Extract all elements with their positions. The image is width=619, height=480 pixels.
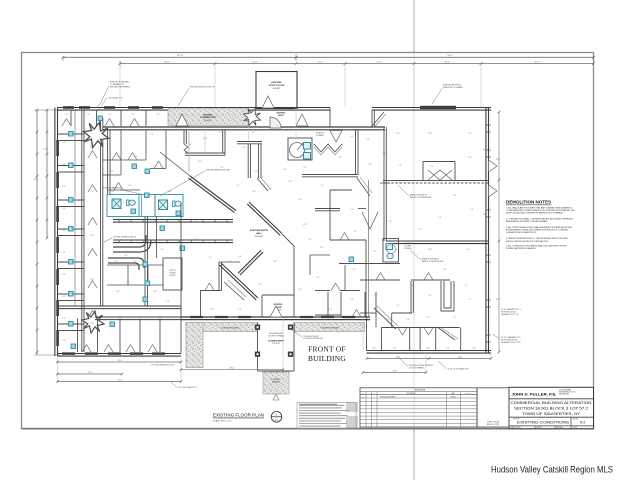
svg-text:9'-6": 9'-6" <box>62 230 66 232</box>
svg-text:5'-6": 5'-6" <box>134 156 138 158</box>
svg-text:6'-6": 6'-6" <box>470 209 474 211</box>
svg-text:1 SOUTH STREET: 1 SOUTH STREET <box>559 390 571 392</box>
svg-text:9'-0": 9'-0" <box>428 295 432 297</box>
svg-text:UTILITY ROOM: UTILITY ROOM <box>269 85 285 87</box>
main inner wall y126 <box>103 127 385 130</box>
svg-text:4'-6": 4'-6" <box>406 319 410 321</box>
h-wall y263 <box>339 263 400 265</box>
diag door at NW of big room <box>372 112 384 126</box>
svg-text:1 OF 6: 1 OF 6 <box>573 427 578 429</box>
bottom wall of left wing <box>58 354 182 357</box>
svg-text:7'-0": 7'-0" <box>464 285 468 287</box>
svg-text:SHT. NO.: SHT. NO. <box>557 427 564 429</box>
svg-text:176 SQFT: 176 SQFT <box>272 343 280 345</box>
svg-text:9'-0": 9'-0" <box>156 114 160 116</box>
svg-text:CASEMENT 32"x72" TYP.: CASEMENT 32"x72" TYP. <box>501 341 521 344</box>
svg-text:3'-0": 3'-0" <box>386 319 390 321</box>
svg-text:6'-0": 6'-0" <box>298 199 302 201</box>
svg-text:5'-0": 5'-0" <box>124 255 128 257</box>
svg-text:2. CONTRACTOR SHALL CONFIRM T: 2. CONTRACTOR SHALL CONFIRM THAT ALL ADJ… <box>506 218 573 221</box>
svg-text:1/2 BATH: 1/2 BATH <box>404 247 412 250</box>
vestibule U structure <box>441 281 454 311</box>
svg-text:SHOULD BE BUDGETED BY CONTRACT: SHOULD BE BUDGETED BY CONTRACTOR. <box>506 240 549 243</box>
page border <box>22 53 594 429</box>
svg-text:4'-8": 4'-8" <box>382 153 386 155</box>
windows on left wall (dark bars) <box>56 140 59 156</box>
svg-text:81'-0": 81'-0" <box>33 179 38 181</box>
svg-text:00001: 00001 <box>361 396 365 398</box>
svg-text:SCALE: 3/16" = 1'-0": SCALE: 3/16" = 1'-0" <box>213 419 232 422</box>
bottom wall right wing <box>367 351 492 354</box>
svg-text:9'-0": 9'-0" <box>220 167 224 169</box>
svg-text:9'-0": 9'-0" <box>108 114 112 116</box>
svg-text:9'-6": 9'-6" <box>62 296 66 298</box>
svg-text:5'-2": 5'-2" <box>236 185 240 187</box>
door V on top wall <box>330 131 342 143</box>
svg-text:5'-6": 5'-6" <box>283 169 287 171</box>
svg-text:8'-6": 8'-6" <box>111 191 115 193</box>
vertical dim at x188 <box>188 132 190 172</box>
windows on right wall <box>487 125 491 132</box>
corridor wall bottom-left <box>58 306 182 309</box>
svg-text:7'-6": 7'-6" <box>430 166 434 168</box>
extra cyan bit <box>349 257 354 262</box>
svg-text:PORT JERVIS, NY 12771: PORT JERVIS, NY 12771 <box>559 392 576 394</box>
corridor B walls <box>237 141 262 143</box>
svg-text:7'-2": 7'-2" <box>398 165 402 167</box>
diag at corridor B bottom <box>257 178 268 191</box>
bottom-right dim line under wall <box>367 358 491 360</box>
concrete sidewalk left (L) <box>186 323 257 332</box>
svg-text:5'-4": 5'-4" <box>320 247 324 249</box>
corridor wall lower (dark) <box>113 240 233 243</box>
star top-left <box>80 119 112 151</box>
svg-text:9'-6": 9'-6" <box>368 164 372 166</box>
bottom band door swings <box>82 345 91 353</box>
svg-text:EXISTING CONDITIONS: EXISTING CONDITIONS <box>517 421 570 425</box>
svg-text:5'-0": 5'-0" <box>303 167 307 169</box>
star near patio <box>240 105 263 128</box>
svg-text:DEMOLITION NOTES: DEMOLITION NOTES <box>506 200 551 205</box>
svg-text:TO BE REMOVED DURING DEMOLITIO: TO BE REMOVED DURING DEMOLITION. EXISTIN… <box>506 209 575 212</box>
svg-text:5'-0": 5'-0" <box>114 261 118 263</box>
corridor wall 3 <box>107 129 109 194</box>
svg-text:W/ PICTURE 48'x 64': W/ PICTURE 48'x 64' <box>501 311 517 313</box>
svg-text:4'-1": 4'-1" <box>453 317 457 319</box>
title block outer <box>509 387 594 428</box>
corridor wall left wing <box>82 110 84 352</box>
h-wall y208 <box>315 208 340 210</box>
svg-text:5'-4": 5'-4" <box>208 257 212 259</box>
svg-text:8'-6": 8'-6" <box>168 191 172 193</box>
svg-text:(845) 856-1366: (845) 856-1366 <box>559 393 569 395</box>
svg-text:SHT NO.: SHT NO. <box>573 419 579 421</box>
cyan marks <box>143 262 148 267</box>
svg-text:DROP CEILING AND LIGHTING IN B: DROP CEILING AND LIGHTING IN BATHROOM TO… <box>506 212 563 215</box>
bottom rooms center-right <box>327 292 329 317</box>
svg-text:21'-0": 21'-0" <box>428 133 433 135</box>
closet front line <box>74 110 76 306</box>
shower X right <box>159 200 168 210</box>
elbow corridor B <box>108 258 144 270</box>
corridor mid verticals <box>144 217 146 307</box>
svg-text:9'-0": 9'-0" <box>443 269 447 271</box>
right wing left wall upper <box>383 127 385 241</box>
svg-text:9'-1": 9'-1" <box>393 348 397 350</box>
corridor wall 2 <box>100 118 102 306</box>
h-wall y280 <box>360 279 400 281</box>
svg-text:1/2" x 3/8" GLASS TYP.: 1/2" x 3/8" GLASS TYP. <box>178 386 197 389</box>
svg-text:FOR BUILDING PERMIT: FOR BUILDING PERMIT <box>380 396 396 398</box>
svg-text:COLUMN ROOF SUPPORT: COLUMN ROOF SUPPORT <box>303 338 323 340</box>
svg-text:8'-0": 8'-0" <box>453 195 457 197</box>
svg-text:12'-0": 12'-0" <box>90 279 95 281</box>
utility room small <box>163 258 182 290</box>
diagonal wall SE <box>238 250 263 275</box>
svg-text:8'-6": 8'-6" <box>273 261 277 263</box>
svg-text:12'-6": 12'-6" <box>198 161 203 163</box>
svg-text:9'-0": 9'-0" <box>466 249 470 251</box>
small bath <box>288 138 312 160</box>
svg-text:6'-8": 6'-8" <box>153 291 157 293</box>
svg-text:EXISTING: EXISTING <box>271 82 282 84</box>
svg-text:7'-8": 7'-8" <box>472 348 476 350</box>
left room door squares (cyan) <box>69 132 74 137</box>
existing utility room <box>256 72 297 109</box>
svg-text:24'-0": 24'-0" <box>483 214 488 216</box>
svg-text:WINDOWS TO REMAIN: WINDOWS TO REMAIN <box>443 86 463 89</box>
svg-text:EXISTING ENTRY DOOR TYP.: EXISTING ENTRY DOOR TYP. <box>190 87 216 89</box>
mid column walls <box>329 190 331 240</box>
svg-text:DESCRIPTION: DESCRIPTION <box>407 393 416 395</box>
lower rooms top wall <box>382 327 460 329</box>
svg-text:S-3: S-3 <box>580 421 585 425</box>
svg-text:9'-6": 9'-6" <box>62 318 66 320</box>
svg-text:REG. NO. 077785: REG. NO. 077785 <box>487 424 499 426</box>
big door V <box>362 212 378 229</box>
svg-text:7'-0": 7'-0" <box>373 295 377 297</box>
svg-text:5'-0": 5'-0" <box>426 317 430 319</box>
svg-text:1. ALL WALLS AND FIXTURES THA: 1. ALL WALLS AND FIXTURES THAT ARE “DASH… <box>506 206 572 209</box>
wall pair left of foyer <box>218 262 220 291</box>
svg-text:56 SQFT: 56 SQFT <box>169 275 175 277</box>
svg-text:CONCRETE: CONCRETE <box>272 379 281 381</box>
svg-text:SECTION 18.001 BLOCK 3 LOT 57.: SECTION 18.001 BLOCK 3 LOT 57.2 <box>514 407 588 411</box>
left wing door swings <box>88 151 97 159</box>
svg-text:CONCRETE SIDEWALK: CONCRETE SIDEWALK <box>221 327 240 330</box>
svg-text:8'-0": 8'-0" <box>252 191 256 193</box>
door triangles on patio wall <box>176 114 188 126</box>
svg-text:HALL: HALL <box>256 232 262 235</box>
svg-text:7'-0": 7'-0" <box>353 231 357 233</box>
svg-text:7'-6": 7'-6" <box>352 269 356 271</box>
svg-text:6'-0": 6'-0" <box>110 171 114 173</box>
svg-text:SURFACES WITH SHEETROCK.: SURFACES WITH SHEETROCK. <box>506 231 537 234</box>
svg-text:47'-0": 47'-0" <box>393 370 398 372</box>
svg-text:NYSDEC APPROVED LANDFILL.: NYSDEC APPROVED LANDFILL. <box>506 247 537 250</box>
windows on bottom wall (dark bars) <box>62 352 75 354</box>
right wall door swings <box>489 160 498 172</box>
front wall centre-left <box>95 317 181 320</box>
misc small walls right of entry hall <box>310 254 330 256</box>
zigzag wall <box>314 144 342 152</box>
svg-text:5'-0": 5'-0" <box>238 309 242 311</box>
concrete sidewalk right <box>295 323 365 332</box>
svg-text:5'-6": 5'-6" <box>410 285 414 287</box>
svg-text:9'-0": 9'-0" <box>213 199 217 201</box>
svg-text:3. ALL STRUCTURAL WORK SHALL: 3. ALL STRUCTURAL WORK SHALL BE INSPECTE… <box>506 226 573 229</box>
svg-text:1/2 BATH: 1/2 BATH <box>316 134 324 137</box>
h wall y262 stub <box>219 261 240 263</box>
svg-text:FRONT OF: FRONT OF <box>308 345 346 354</box>
svg-text:5'-0": 5'-0" <box>468 157 472 159</box>
svg-text:94'-6": 94'-6" <box>447 55 452 57</box>
room below patio <box>183 130 185 144</box>
svg-text:COVERED ENTRY: COVERED ENTRY <box>268 341 285 343</box>
svg-text:12'-0": 12'-0" <box>90 191 95 193</box>
svg-text:7'-4": 7'-4" <box>268 189 272 191</box>
left dimension lines <box>36 110 38 355</box>
disclaimer text block <box>297 403 356 429</box>
covered patio stipple <box>168 109 248 126</box>
windows on front wall <box>190 316 203 318</box>
right exterior wall <box>486 108 489 354</box>
h-wall y313 <box>360 312 376 314</box>
svg-text:9'-0": 9'-0" <box>131 114 135 116</box>
svg-text:12'-0": 12'-0" <box>90 235 95 237</box>
svg-text:13'-0": 13'-0" <box>428 249 433 251</box>
svg-text:9'-6": 9'-6" <box>62 186 66 188</box>
svg-text:4'-0": 4'-0" <box>260 177 264 179</box>
svg-text:8'-0": 8'-0" <box>128 185 132 187</box>
walkway below entry <box>263 372 289 394</box>
svg-text:5'-8": 5'-8" <box>338 157 342 159</box>
svg-text:137'-0": 137'-0" <box>177 55 183 57</box>
svg-text:6'-2": 6'-2" <box>350 299 354 301</box>
svg-text:4'-0": 4'-0" <box>316 277 320 279</box>
svg-text:3'-6": 3'-6" <box>288 181 292 183</box>
bottom tiny row <box>534 426 536 429</box>
svg-text:9'-6": 9'-6" <box>62 274 66 276</box>
svg-text:9'-0": 9'-0" <box>468 133 472 135</box>
svg-text:4'x8' GLASS TYP.: 4'x8' GLASS TYP. <box>108 97 123 100</box>
left wall hatch mark <box>380 182 390 184</box>
svg-text:3'-0": 3'-0" <box>254 171 258 173</box>
svg-text:9'-0": 9'-0" <box>258 284 262 286</box>
svg-text:41'-0": 41'-0" <box>118 379 123 381</box>
svg-text:COVERED PATIO: COVERED PATIO <box>200 116 217 119</box>
svg-text:5'-0": 5'-0" <box>166 301 170 303</box>
svg-text:41'-0": 41'-0" <box>118 360 123 362</box>
right wing left wall extension <box>368 180 370 317</box>
svg-text:DOOR TO REMAIN: DOOR TO REMAIN <box>409 366 425 369</box>
svg-text:REV: REV <box>362 393 365 395</box>
left tiny note blocks <box>346 402 358 404</box>
svg-text:EXISTING BATHROOM: EXISTING BATHROOM <box>103 187 123 190</box>
svg-text:4'-6": 4'-6" <box>133 261 137 263</box>
svg-text:9'-0": 9'-0" <box>446 348 450 350</box>
svg-text:9'-6": 9'-6" <box>62 340 66 342</box>
connect entry hall to foyer <box>282 234 294 246</box>
window band dark <box>420 106 456 109</box>
svg-text:9'-6": 9'-6" <box>62 142 66 144</box>
revision table <box>360 388 477 427</box>
right wing mid dividers <box>391 313 393 328</box>
top band room dividers <box>70 110 72 126</box>
svg-text:EXISTING FLOOR PLAN: EXISTING FLOOR PLAN <box>213 412 264 417</box>
svg-text:WALLS TO BE REMOVED: WALLS TO BE REMOVED <box>422 260 444 263</box>
svg-text:EXISTING BATHROOM TRIM: EXISTING BATHROOM TRIM <box>206 169 230 172</box>
small cyan marks col2 <box>132 164 137 169</box>
left wing room divider pairs <box>58 133 85 135</box>
h-wall y290 segments <box>315 290 330 292</box>
svg-text:TYPICAL INTERIOR WALLS: TYPICAL INTERIOR WALLS <box>113 236 137 239</box>
svg-text:8'-6": 8'-6" <box>116 219 120 221</box>
wall y240 right wing <box>386 241 489 244</box>
top mid rooms extra <box>165 130 167 169</box>
covered entry <box>257 323 259 372</box>
bathroom block <box>107 195 183 217</box>
svg-text:9'-6": 9'-6" <box>62 208 66 210</box>
svg-text:9'-6": 9'-6" <box>62 164 66 166</box>
top band door swings <box>105 119 114 127</box>
svg-text:JOHN D. FULLER, P.E.: JOHN D. FULLER, P.E. <box>512 393 557 397</box>
svg-text:8'-6": 8'-6" <box>166 219 170 221</box>
svg-text:BUILDING: BUILDING <box>308 354 346 363</box>
svg-text:DR. BY: DR. BY <box>537 427 542 429</box>
toilet right <box>173 201 182 207</box>
center-right room walls <box>355 130 357 175</box>
svg-text:WALLS TO BE REMOVED: WALLS TO BE REMOVED <box>410 196 432 199</box>
corridor wall upper (dark) <box>113 220 233 223</box>
svg-text:EXISTING ENTRY: EXISTING ENTRY <box>250 230 269 232</box>
svg-text:6'-0": 6'-0" <box>366 139 370 141</box>
h wall y290 left of foyer <box>200 290 222 292</box>
svg-text:9'-0": 9'-0" <box>388 221 392 223</box>
svg-text:7'-0": 7'-0" <box>86 114 90 116</box>
top dimension line 2 <box>120 63 594 65</box>
corridor hatch fills <box>118 220 229 223</box>
svg-text:JOHN D. FULLER: JOHN D. FULLER <box>487 422 500 424</box>
svg-text:30'-0": 30'-0" <box>496 299 501 301</box>
svg-text:ROOM: ROOM <box>170 273 176 275</box>
top dimension line 1 <box>63 56 594 58</box>
small cyan bits <box>131 209 136 214</box>
right bathroom <box>383 239 399 263</box>
v-wall corridor <box>410 281 412 313</box>
top wall right wing <box>372 108 491 111</box>
closet with X doors <box>423 161 455 163</box>
svg-text:10'-0": 10'-0" <box>328 309 333 311</box>
svg-text:150 SQFT: 150 SQFT <box>255 236 265 238</box>
svg-text:CONCRETE SIDEWALK: CONCRETE SIDEWALK <box>321 327 340 330</box>
svg-text:96 SQFT: 96 SQFT <box>273 88 282 90</box>
zigzag door SE <box>357 178 370 196</box>
diag door bottom <box>374 308 396 329</box>
svg-text:4'-1": 4'-1" <box>396 305 400 307</box>
svg-text:20'-6": 20'-6" <box>458 356 463 358</box>
svg-text:4'-0": 4'-0" <box>160 249 164 251</box>
exterior wall: top <box>58 108 331 111</box>
svg-text:11'-6": 11'-6" <box>194 221 199 223</box>
cyan at bottom rooms <box>71 344 76 349</box>
svg-text:5. ALL CONSTRUCTION DEBRIS SH: 5. ALL CONSTRUCTION DEBRIS SHALL BE DISP… <box>506 245 567 248</box>
svg-text:23'-0": 23'-0" <box>496 159 501 161</box>
name row <box>509 398 594 400</box>
windows on top wall (dark bars) <box>63 106 74 109</box>
svg-text:9'-6": 9'-6" <box>350 209 354 211</box>
svg-text:6'-8": 6'-8" <box>242 147 246 149</box>
diag door thin pair <box>224 282 244 300</box>
svg-text:37'-0": 37'-0" <box>43 149 48 151</box>
svg-text:7'-0": 7'-0" <box>116 156 120 158</box>
svg-text:17'-4": 17'-4" <box>376 61 381 63</box>
svg-text:6'-0": 6'-0" <box>238 256 242 258</box>
utility door notch <box>262 96 274 108</box>
svg-text:21'-0": 21'-0" <box>219 132 224 134</box>
top wall end cap <box>329 108 331 128</box>
svg-text:EXISTING: EXISTING <box>203 115 213 117</box>
svg-text:4'-0": 4'-0" <box>350 136 354 138</box>
v wall x200 to front <box>200 291 202 318</box>
interior wall to be removed (hatched) <box>383 181 488 184</box>
svg-text:9'-6": 9'-6" <box>251 132 255 134</box>
stamp box <box>477 388 509 427</box>
svg-text:TOWN OF SAUGERTIES, NY: TOWN OF SAUGERTIES, NY <box>522 412 581 416</box>
svg-text:5'-4": 5'-4" <box>418 229 422 231</box>
svg-text:Hudson Valley Catskill Region: Hudson Valley Catskill Region MLS <box>491 464 613 475</box>
svg-text:5'-8": 5'-8" <box>298 289 302 291</box>
bottom dimension lines <box>58 361 182 363</box>
svg-text:17'-6": 17'-6" <box>210 309 215 311</box>
svg-text:29'-0": 29'-0" <box>164 61 169 63</box>
svg-text:7'-0": 7'-0" <box>228 261 232 263</box>
bottom band verticals <box>77 319 79 353</box>
svg-text:ARE BRACED PROPERLY, AS NECESS: ARE BRACED PROPERLY, AS NECESSARY. <box>506 220 548 223</box>
diagonal wall SW long <box>219 263 258 300</box>
svg-text:6'-0": 6'-0" <box>188 144 192 146</box>
svg-text:6'-0": 6'-0" <box>116 291 120 293</box>
svg-text:PATIO: PATIO <box>278 114 284 117</box>
left wall right wing <box>366 317 368 351</box>
svg-text:DOORS TO REMAIN: DOORS TO REMAIN <box>268 334 285 337</box>
svg-text:5'-0": 5'-0" <box>150 134 154 136</box>
svg-text:12'-6": 12'-6" <box>317 61 322 63</box>
lower rooms verticals <box>381 328 383 351</box>
svg-text:4'-2": 4'-2" <box>438 217 442 219</box>
svg-text:1 TYPICAL INTERIOR DOOR: 1 TYPICAL INTERIOR DOOR <box>150 364 175 367</box>
star bottom-left <box>80 309 106 335</box>
v wall from top <box>371 110 373 127</box>
diagonal wall NE <box>247 202 282 235</box>
svg-text:1 3/8" x 6'-8" GLAZED TYP.: 1 3/8" x 6'-8" GLAZED TYP. <box>448 368 469 371</box>
svg-text:9'-0": 9'-0" <box>65 114 69 116</box>
svg-text:28'-4": 28'-4" <box>534 61 539 63</box>
svg-text:8'-0": 8'-0" <box>396 249 400 251</box>
faint dim extension lines <box>295 108 297 138</box>
svg-text:13'-6": 13'-6" <box>426 348 431 350</box>
foyer door V <box>270 306 282 317</box>
fold line <box>413 0 415 52</box>
svg-text:28'-0": 28'-0" <box>230 368 235 370</box>
exterior wall: left <box>55 108 58 357</box>
svg-text:12'-0": 12'-0" <box>90 147 95 149</box>
svg-text:96 SQFT: 96 SQFT <box>204 120 212 122</box>
svg-text:EXISTING: EXISTING <box>274 304 283 306</box>
diagonal wall NW <box>188 176 236 213</box>
bath cyan fixtures <box>304 143 311 150</box>
svg-text:21'-0": 21'-0" <box>252 61 257 63</box>
